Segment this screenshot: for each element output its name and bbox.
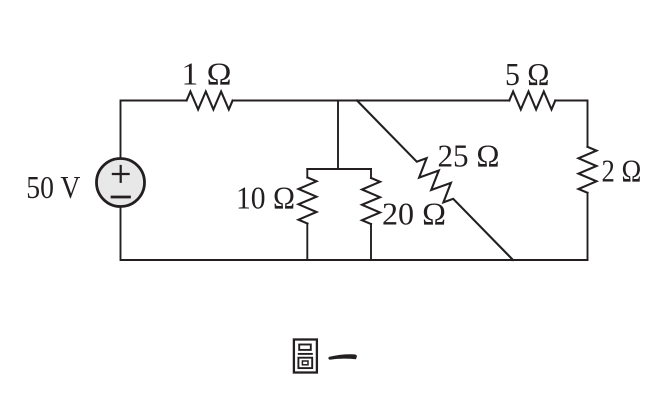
wire top right segment xyxy=(555,101,587,147)
resistor R2 2 Ohm xyxy=(579,147,597,193)
svg-text:25 Ω: 25 Ω xyxy=(438,137,500,173)
resistor R10 10 Ohm xyxy=(299,178,317,224)
svg-text:2 Ω: 2 Ω xyxy=(602,153,642,189)
caption Tu (figure) character drawn strokes xyxy=(294,340,317,373)
caption Yi (one) character stroke xyxy=(328,354,357,359)
svg-text:20 Ω: 20 Ω xyxy=(382,196,446,232)
wire junction vertical from node A xyxy=(337,101,339,170)
svg-text:50 V: 50 V xyxy=(26,169,80,205)
resistor R20 20 Ohm xyxy=(362,178,380,224)
svg-text:5 Ω: 5 Ω xyxy=(505,56,550,92)
resistor R25 25 Ohm diagonal xyxy=(357,101,513,261)
wire horizontal bar of parallel resistors xyxy=(307,168,371,170)
svg-text:10 Ω: 10 Ω xyxy=(236,179,295,215)
svg-text:1 Ω: 1 Ω xyxy=(182,55,232,91)
resistor R5 5 Ohm xyxy=(509,92,555,110)
plus sign of source xyxy=(113,166,129,182)
wire bottom xyxy=(121,207,588,261)
wire top left segment xyxy=(121,101,187,158)
resistor R1 1 Ohm xyxy=(187,92,233,110)
voltage source V1 circle xyxy=(97,159,145,207)
wire right bottom segment xyxy=(587,193,589,260)
minus sign of source xyxy=(112,196,130,199)
wire top middle segment xyxy=(233,100,510,102)
wire lead R20 top xyxy=(370,169,372,178)
wire lead R10 bottom xyxy=(306,224,308,261)
wire lead R20 bottom xyxy=(370,224,372,260)
wire lead R10 top xyxy=(306,169,308,178)
